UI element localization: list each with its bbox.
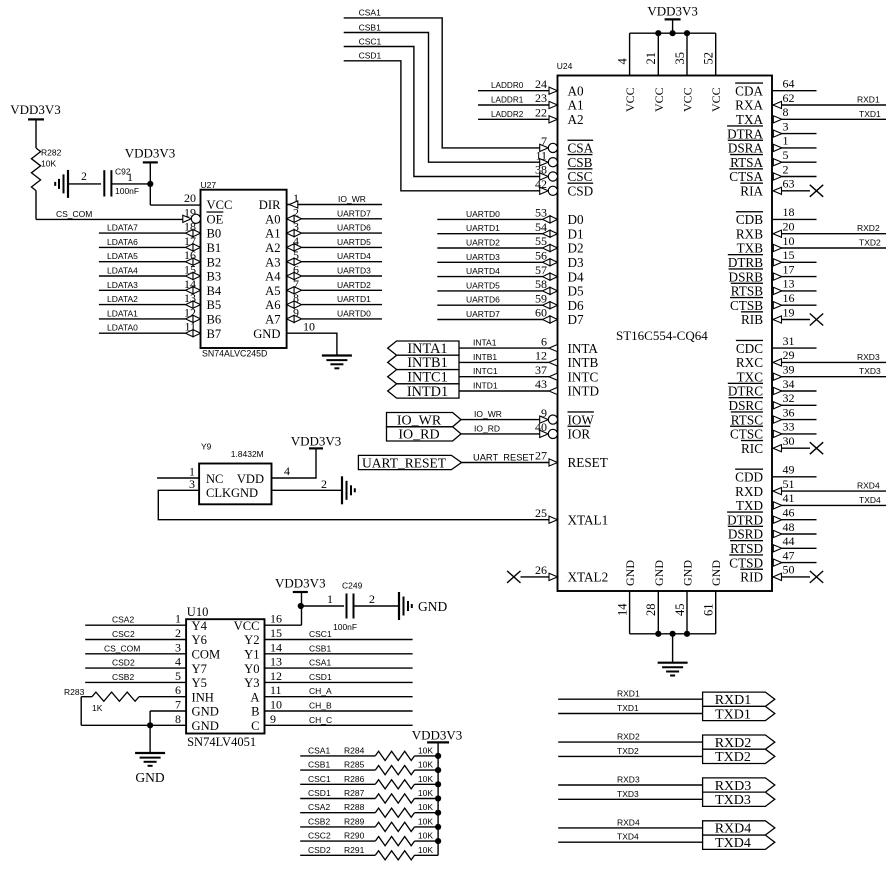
svg-text:CSB: CSB (568, 155, 593, 170)
svg-text:DIR: DIR (259, 198, 281, 212)
svg-text:RXD2: RXD2 (857, 223, 880, 233)
svg-text:LADDR1: LADDR1 (491, 96, 524, 105)
port flag UART_RESET (358, 455, 461, 470)
svg-text:54: 54 (535, 220, 547, 234)
U24 pin 40 IOR / wire IO_RD (461, 420, 590, 442)
junction VDD3V3/C249 (298, 603, 304, 609)
svg-text:10K: 10K (418, 788, 433, 798)
svg-text:SN74ALVC245D: SN74ALVC245D (202, 349, 267, 359)
resistor R290 10K (CSC2 pull-up) (300, 831, 441, 846)
U24 pin 41 TXD (736, 491, 886, 513)
svg-text:4: 4 (284, 464, 290, 478)
svg-text:LDATA6: LDATA6 (107, 237, 138, 247)
svg-text:CSD2: CSD2 (112, 658, 135, 668)
svg-text:RXD3: RXD3 (617, 775, 640, 785)
svg-text:TXD4: TXD4 (859, 495, 881, 505)
svg-text:DSRD: DSRD (728, 527, 763, 542)
svg-text:R289: R289 (344, 816, 365, 826)
svg-text:Y6: Y6 (192, 633, 207, 647)
U24 pin 39 TXC (737, 363, 886, 385)
svg-text:D3: D3 (568, 255, 585, 270)
wire LDATA1 to U27 B6 (99, 308, 201, 322)
svg-text:10: 10 (270, 698, 282, 712)
svg-text:34: 34 (783, 377, 795, 391)
svg-text:TXD3: TXD3 (859, 366, 881, 376)
svg-text:40: 40 (535, 420, 547, 434)
U24 pin 49 CDD (735, 463, 816, 485)
svg-text:3: 3 (189, 477, 195, 491)
svg-text:UARTD7: UARTD7 (466, 309, 500, 319)
svg-text:10K: 10K (418, 774, 433, 784)
svg-text:8: 8 (783, 105, 789, 119)
svg-text:TXD2: TXD2 (715, 750, 751, 765)
svg-text:RXD1: RXD1 (617, 689, 640, 699)
U24 pin 10 TXB (737, 234, 886, 256)
svg-text:D2: D2 (568, 241, 584, 256)
svg-text:A6: A6 (265, 298, 280, 312)
U24 pin 54 D1 / wire UARTD1 (437, 220, 583, 242)
wire CSD2 to U10 pin 4 (85, 658, 186, 669)
svg-text:A4: A4 (265, 270, 281, 284)
svg-text:22: 22 (535, 106, 547, 120)
port flag INTB1 (388, 355, 459, 371)
U24 pin 16 CTSB (730, 291, 816, 313)
ground (C92, sideways) (55, 170, 68, 198)
svg-text:INTB: INTB (568, 355, 599, 370)
svg-text:R287: R287 (344, 788, 365, 798)
svg-text:RXD: RXD (735, 484, 763, 499)
svg-text:DTRC: DTRC (728, 384, 763, 399)
U24 GND pin labels (623, 560, 723, 586)
svg-text:B6: B6 (207, 313, 222, 327)
svg-text:CSA2: CSA2 (308, 802, 330, 812)
resistor R288 10K (CSA2 pull-up) (300, 802, 441, 817)
svg-text:C249: C249 (342, 581, 363, 591)
U24 pin 32 DSRC (729, 391, 817, 413)
U24 pin 3 DTRA (727, 119, 816, 141)
svg-text:25: 25 (535, 506, 547, 520)
svg-text:43: 43 (535, 377, 547, 391)
svg-text:R290: R290 (344, 831, 365, 841)
svg-text:LDATA5: LDATA5 (107, 251, 138, 261)
U24 pin 15 DTRB (728, 248, 817, 270)
svg-text:32: 32 (783, 391, 795, 405)
svg-text:4: 4 (615, 58, 629, 65)
svg-text:20: 20 (184, 191, 196, 205)
svg-text:LDATA2: LDATA2 (107, 294, 138, 304)
svg-text:35: 35 (673, 52, 687, 65)
wire U10 pin 8 GND (147, 722, 186, 753)
power VDD3V3 (Y9) (291, 433, 342, 448)
svg-text:INTC: INTC (568, 369, 599, 384)
wire LDATA2 to U27 B5 (99, 294, 201, 308)
svg-text:15: 15 (783, 248, 795, 262)
svg-text:TXB: TXB (737, 241, 764, 256)
Y9 pin 3 wire to U24 XTAL1 (158, 477, 549, 520)
svg-text:13: 13 (270, 655, 282, 669)
port flag TXD4 (703, 835, 775, 851)
svg-text:UARTD4: UARTD4 (337, 251, 371, 261)
resistor R289 10K (CSB2 pull-up) (300, 816, 441, 831)
svg-text:GND: GND (681, 560, 695, 586)
svg-text:45: 45 (673, 604, 687, 617)
svg-text:16: 16 (783, 291, 795, 305)
ground (U24 GND pins) (658, 663, 688, 676)
svg-text:CSD: CSD (568, 184, 594, 199)
svg-text:CSD2: CSD2 (308, 845, 331, 855)
svg-text:RESET: RESET (568, 455, 608, 470)
svg-text:Y0: Y0 (244, 662, 259, 676)
svg-text:TXD: TXD (736, 498, 763, 513)
svg-text:LDATA0: LDATA0 (107, 323, 138, 333)
svg-text:A3: A3 (265, 255, 280, 269)
svg-text:A2: A2 (265, 241, 280, 255)
U24 pin 12 INTB / wire INTB1 (459, 349, 598, 371)
U24 pin 17 DSRB (729, 262, 817, 284)
svg-text:RXD4: RXD4 (617, 817, 640, 827)
svg-text:19: 19 (783, 305, 795, 319)
svg-text:IOR: IOR (568, 427, 591, 442)
svg-text:6: 6 (175, 683, 181, 697)
svg-text:12: 12 (270, 669, 282, 683)
U24 pin 31 CDC (736, 334, 817, 356)
wire UARTD7 from U27 A0 (287, 208, 382, 222)
power VDD3V3 (U10/C249) (275, 576, 326, 593)
svg-text:53: 53 (535, 206, 547, 220)
svg-text:TXD1: TXD1 (617, 703, 639, 713)
svg-text:11: 11 (535, 148, 547, 162)
svg-text:CS_COM: CS_COM (104, 643, 140, 653)
svg-text:12: 12 (535, 349, 547, 363)
svg-text:UARTD0: UARTD0 (466, 209, 500, 219)
svg-text:VCC: VCC (652, 87, 666, 112)
svg-text:B7: B7 (207, 327, 222, 341)
svg-text:COM: COM (192, 648, 221, 662)
port flag RXD4 (703, 821, 775, 837)
svg-text:R288: R288 (344, 802, 365, 812)
svg-text:VCC: VCC (207, 198, 233, 212)
svg-text:CTSA: CTSA (729, 169, 763, 184)
svg-text:VDD3V3: VDD3V3 (125, 146, 176, 161)
U24 VCC pin numbers 4 21 35 52 (615, 52, 715, 65)
svg-text:B5: B5 (207, 298, 222, 312)
svg-text:27: 27 (535, 449, 547, 463)
svg-text:2: 2 (783, 162, 789, 176)
svg-text:VDD3V3: VDD3V3 (10, 102, 61, 117)
wire UARTD0 from U27 A7 (287, 308, 382, 322)
wire CSC1 from U10 pin 15 (265, 629, 413, 640)
svg-text:16: 16 (270, 612, 282, 626)
svg-text:42: 42 (535, 177, 547, 191)
svg-text:INTD1: INTD1 (473, 381, 498, 391)
port flag INTA1 (388, 341, 459, 357)
wire net CSC1 to U24 CSC (344, 36, 540, 176)
capacitor C249 100nF (301, 581, 399, 633)
wire net CSD1 to U24 CSD (344, 51, 540, 191)
svg-text:LDATA4: LDATA4 (107, 266, 138, 276)
wire VDD3V3 to U27 pin 20 (150, 204, 200, 206)
svg-text:CSA2: CSA2 (112, 615, 134, 625)
svg-text:3: 3 (175, 640, 181, 654)
U24 pin 25 XTAL1 (535, 506, 608, 528)
wire CH_B from U10 pin 10 (265, 701, 413, 712)
svg-text:A7: A7 (265, 313, 280, 327)
port flag INTC1 (388, 370, 459, 386)
svg-text:IO_WR: IO_WR (338, 194, 366, 204)
U24 pin 9 IOW / wire IO_WR (461, 406, 594, 428)
svg-text:1: 1 (327, 592, 333, 606)
svg-text:CDC: CDC (736, 341, 763, 356)
svg-text:R285: R285 (344, 760, 365, 770)
svg-text:5: 5 (175, 669, 181, 683)
U27 pin numbers (184, 191, 315, 334)
svg-text:UARTD4: UARTD4 (466, 266, 500, 276)
U24 pin 56 D3 / wire UARTD3 (437, 249, 584, 271)
svg-text:TXD2: TXD2 (859, 238, 881, 248)
svg-text:XTAL1: XTAL1 (568, 512, 609, 527)
ground (C249, sideways) (399, 592, 447, 620)
U24 pin 42 CSD (active low) (535, 177, 593, 199)
svg-text:TXA: TXA (736, 112, 764, 127)
svg-text:14: 14 (615, 603, 629, 616)
svg-text:CS_COM: CS_COM (56, 209, 92, 219)
U24 pin 51 RXD (735, 477, 886, 499)
svg-text:1: 1 (175, 612, 181, 626)
wire UARTD1 from U27 A6 (287, 294, 382, 308)
svg-text:38: 38 (535, 163, 547, 177)
svg-text:1: 1 (127, 170, 133, 184)
U24 pin 22 A2 / wire LADDR2 (478, 106, 584, 128)
svg-text:A0: A0 (568, 83, 585, 98)
resistor R285 10K (CSB1 pull-up) (300, 760, 441, 775)
svg-text:CSC2: CSC2 (112, 629, 135, 639)
svg-text:UARTD7: UARTD7 (337, 208, 371, 218)
U24 pin 1 DSRA (728, 134, 817, 156)
svg-text:CSB1: CSB1 (309, 643, 331, 653)
svg-text:51: 51 (783, 477, 795, 491)
svg-text:56: 56 (535, 249, 547, 263)
svg-text:DSRA: DSRA (728, 141, 764, 156)
svg-text:GND: GND (709, 560, 723, 586)
svg-text:CSC1: CSC1 (308, 774, 331, 784)
svg-text:10K: 10K (41, 159, 56, 169)
svg-text:VCC: VCC (234, 619, 260, 633)
svg-text:47: 47 (783, 548, 795, 562)
svg-text:D0: D0 (568, 212, 585, 227)
U10 pin numbers (175, 612, 282, 726)
svg-text:RXD2: RXD2 (617, 732, 640, 742)
svg-text:4: 4 (175, 655, 181, 669)
capacitor C92 100nF (68, 166, 150, 196)
svg-text:RTSB: RTSB (731, 284, 763, 299)
svg-text:VDD3V3: VDD3V3 (412, 728, 463, 743)
svg-text:29: 29 (783, 348, 795, 362)
svg-text:UARTD1: UARTD1 (466, 223, 500, 233)
svg-text:UARTD6: UARTD6 (466, 295, 500, 305)
svg-text:10K: 10K (418, 802, 433, 812)
svg-text:LDATA7: LDATA7 (107, 223, 138, 233)
IC U24 ST16C554-CQ64 body (557, 61, 772, 591)
svg-text:CSA1: CSA1 (359, 8, 381, 18)
U24 pin 36 RTSC (731, 405, 817, 427)
svg-text:XTAL2: XTAL2 (568, 570, 609, 585)
svg-text:RIA: RIA (740, 184, 763, 199)
svg-text:VDD3V3: VDD3V3 (275, 576, 326, 591)
svg-text:24: 24 (535, 77, 547, 91)
svg-text:CSC1: CSC1 (359, 36, 382, 46)
wire CSA1 from U10 pin 13 (265, 658, 413, 669)
svg-text:IO_RD: IO_RD (474, 423, 500, 433)
port flag IO_WR (387, 413, 462, 429)
svg-text:B4: B4 (207, 284, 222, 298)
U24 pin 50 RID (740, 563, 823, 585)
svg-text:LADDR0: LADDR0 (491, 81, 524, 90)
svg-text:6: 6 (541, 334, 547, 348)
svg-text:CH_B: CH_B (309, 701, 332, 711)
oscillator Y9 1.8432M body (199, 442, 271, 505)
svg-text:B2: B2 (207, 255, 222, 269)
svg-text:30: 30 (783, 434, 795, 448)
svg-text:LADDR2: LADDR2 (491, 110, 524, 119)
svg-text:DTRA: DTRA (727, 126, 763, 141)
svg-text:3: 3 (783, 119, 789, 133)
U24 pin 64 CDA (735, 77, 816, 99)
svg-text:CH_A: CH_A (309, 686, 332, 696)
svg-text:7: 7 (175, 698, 181, 712)
svg-text:CH_C: CH_C (309, 715, 332, 725)
svg-text:RXD4: RXD4 (857, 481, 880, 491)
svg-text:R291: R291 (344, 845, 365, 855)
wire UARTD5 from U27 A2 (287, 237, 382, 251)
svg-text:CSB1: CSB1 (359, 22, 381, 32)
wire U10 pin 16 VCC (265, 592, 302, 625)
svg-text:UART_RESET: UART_RESET (473, 452, 535, 462)
U24 pin 57 D4 / wire UARTD4 (437, 263, 584, 285)
wire RXD2 to port flag (558, 732, 702, 743)
svg-text:R282: R282 (41, 148, 62, 158)
svg-text:TXD2: TXD2 (617, 746, 639, 756)
U24 GND bus wire (630, 591, 716, 663)
svg-text:CSB2: CSB2 (112, 672, 134, 682)
svg-text:20: 20 (783, 220, 795, 234)
svg-text:GND: GND (253, 327, 280, 341)
wire TXD4 to port flag (558, 832, 702, 843)
svg-text:U10: U10 (187, 605, 209, 619)
svg-text:48: 48 (783, 520, 795, 534)
svg-text:U24: U24 (557, 61, 573, 71)
wire CS_COM from R282 to U27 OE (36, 191, 183, 220)
svg-text:INTB1: INTB1 (473, 352, 497, 362)
resistor R287 10K (CSD1 pull-up) (300, 788, 441, 803)
svg-text:GND: GND (135, 770, 164, 785)
svg-text:15: 15 (270, 626, 282, 640)
svg-text:INH: INH (192, 690, 214, 704)
U24 pin 60 D7 / wire UARTD7 (437, 306, 584, 328)
svg-text:23: 23 (535, 91, 547, 105)
svg-text:RTSD: RTSD (730, 541, 763, 556)
U24 pin 5 RTSA (730, 148, 816, 170)
svg-text:UARTD6: UARTD6 (337, 223, 371, 233)
svg-text:IOW: IOW (568, 412, 595, 427)
svg-text:B1: B1 (207, 241, 222, 255)
svg-text:TXD1: TXD1 (859, 109, 881, 119)
svg-text:RXD3: RXD3 (857, 352, 880, 362)
svg-text:CTSC: CTSC (730, 427, 763, 442)
resistor R283 1K (U10 INH) (64, 687, 186, 713)
svg-text:A1: A1 (265, 227, 280, 241)
svg-text:A5: A5 (265, 284, 280, 298)
power VDD3V3 (C92 / U27 VCC) (125, 146, 176, 206)
wire LDATA0 to U27 B7 (99, 323, 201, 337)
svg-text:GND: GND (652, 560, 666, 586)
wire UARTD6 from U27 A1 (287, 223, 382, 237)
svg-text:Y3: Y3 (244, 676, 259, 690)
svg-text:VDD3V3: VDD3V3 (291, 433, 342, 448)
svg-text:39: 39 (783, 363, 795, 377)
U27 pin name labels (207, 198, 282, 341)
svg-text:RXB: RXB (736, 226, 763, 241)
svg-text:59: 59 (535, 291, 547, 305)
svg-text:GND: GND (623, 560, 637, 586)
svg-text:INTA1: INTA1 (473, 338, 497, 348)
U24 pin 38 CSC (active low) (535, 163, 593, 185)
U24 pin 2 CTSA (729, 162, 816, 184)
U24 pin 7 CSA (active low) (540, 134, 594, 156)
U24 VCC bus wire (630, 30, 716, 75)
IC U27 SN74ALVC245D body (201, 180, 287, 359)
U24 pin 13 RTSB (731, 277, 817, 299)
svg-text:9: 9 (541, 406, 547, 420)
svg-text:CSD1: CSD1 (359, 51, 382, 61)
svg-text:41: 41 (783, 491, 795, 505)
svg-text:36: 36 (783, 405, 795, 419)
svg-text:61: 61 (702, 604, 716, 617)
resistor R291 10K (CSD2 pull-up) (300, 845, 438, 860)
wire TXD1 to port flag (558, 703, 702, 714)
wire LDATA4 to U27 B3 (99, 266, 201, 280)
svg-text:TXD1: TXD1 (715, 707, 751, 722)
U24 pin 62 RXA (735, 91, 886, 113)
svg-text:R283: R283 (64, 687, 85, 697)
svg-text:A2: A2 (568, 112, 584, 127)
svg-text:VCC: VCC (623, 87, 637, 112)
svg-text:17: 17 (783, 262, 795, 276)
U24 pin 44 RTSD (730, 534, 816, 556)
port flag RXD2 (703, 735, 775, 751)
U24 pin 11 CSB (active low) (535, 148, 592, 170)
port flag INTD1 (388, 384, 459, 400)
U24 pin 34 DTRC (728, 377, 817, 399)
svg-text:46: 46 (783, 506, 795, 520)
svg-text:CSC1: CSC1 (309, 629, 332, 639)
svg-text:CDD: CDD (735, 470, 763, 485)
svg-text:GND: GND (192, 719, 219, 733)
svg-text:GND: GND (192, 705, 219, 719)
wire LDATA3 to U27 B4 (99, 280, 201, 294)
resistor R282 10K (31, 148, 61, 191)
svg-text:UARTD3: UARTD3 (337, 266, 371, 276)
svg-text:TXD4: TXD4 (617, 832, 639, 842)
svg-text:TXD3: TXD3 (715, 793, 751, 808)
wire CSC2 to U10 pin 2 (85, 629, 186, 640)
svg-text:55: 55 (535, 234, 547, 248)
wire CS_COM to U10 pin 3 (85, 643, 186, 654)
Y9 pin 4 wire to VDD3V3 (272, 448, 317, 478)
wire CSB1 from U10 pin 14 (265, 643, 413, 654)
wire UARTD3 from U27 A4 (287, 266, 382, 280)
svg-text:A: A (250, 690, 259, 704)
svg-text:UARTD2: UARTD2 (337, 280, 371, 290)
